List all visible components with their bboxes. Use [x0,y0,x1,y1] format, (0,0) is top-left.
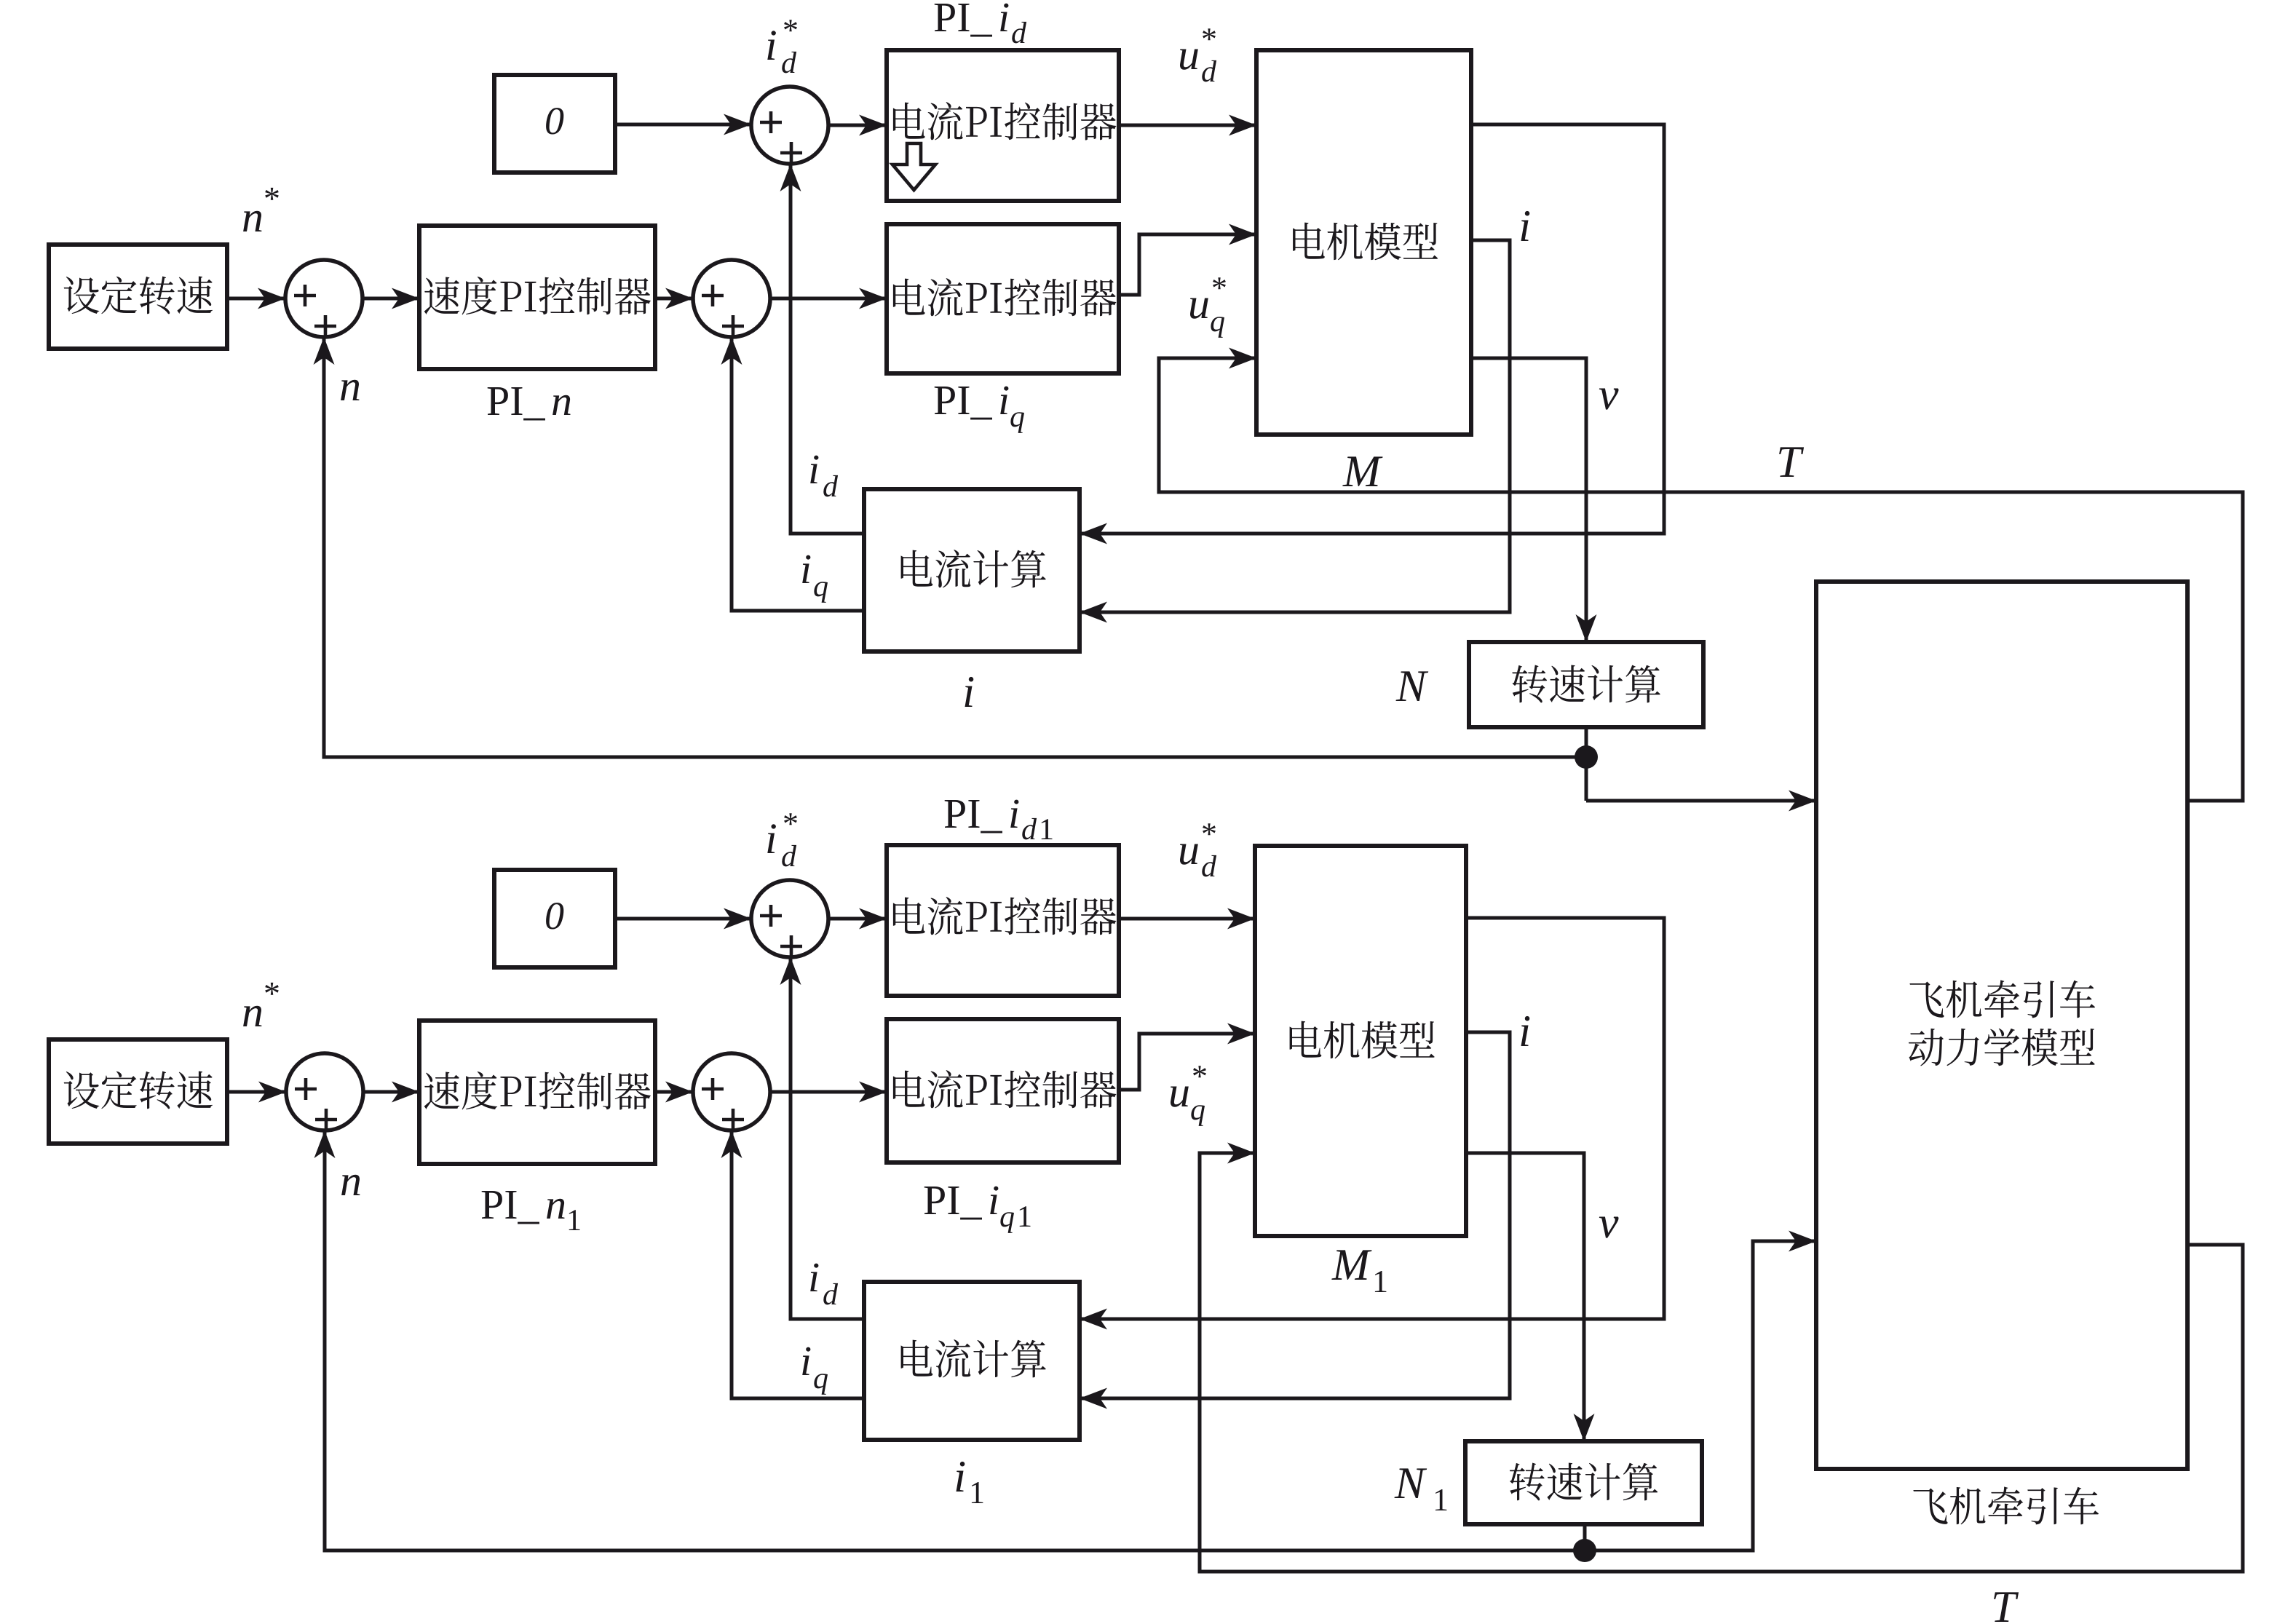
wire 速度PI控制器1 -> summing junction 2 [655,297,693,301]
wire junction4 -> 电流PI控制器 q2 [770,1090,887,1094]
wire 转速计算1 output down to junction dot [1585,727,1588,801]
label ud* (bottom) [1180,844,1198,865]
wire iq feedback -> junction 4 [732,1130,864,1398]
label n* (speed ref 1) [243,211,261,231]
wire N1 -> 飞机牵引车动力学模型 input [1585,1241,1816,1550]
wire junction d2 -> 电流PI控制器 d2 [828,917,887,921]
label PI_n [488,387,545,421]
wire u_q*: PI_iq2 -> motor model 2 (with jog) [1119,1034,1255,1090]
block: current calculation 2 (电流计算) [864,1282,1080,1440]
block: zero reference 1 (0) [494,75,615,173]
wire T feedback: big box -> motor model 1 [1159,358,2243,801]
block: current PI controller d1 (电流PI控制器) [887,50,1119,201]
block: current calculation 1 (电流计算) [864,489,1080,651]
wire 设定转速1 -> speed summing junction 1 [227,297,285,301]
label T (top torque feedback) [1779,447,1804,477]
block: speed calculation 1 (转速计算) [1469,642,1703,727]
block: speed calculation 2 (转速计算) [1465,1441,1702,1524]
block: zero reference 2 (0) [494,870,615,967]
label id* (bottom) [767,824,776,853]
wire iq feedback -> junction 2 [732,337,864,611]
label PI_i_q1 [924,1187,982,1220]
label v (motor1 speed output) [1599,389,1619,410]
wire u_d* : PI_id1 -> motor model 1 [1119,124,1256,127]
label v (motor2 speed output) [1599,1217,1619,1238]
label PI_i_q [935,387,992,420]
wire junction d1 -> 电流PI控制器 d1 [828,124,887,127]
wire T feedback: big box -> motor model 2 [1200,1153,2243,1572]
wire 速度PI控制器2 -> summing junction 4 [655,1090,693,1094]
label i (below 电流计算1) [965,677,974,707]
wire u_d*: PI_id2 -> motor model 2 [1119,917,1255,921]
block: motor model 2 (电机模型) [1255,846,1466,1236]
label ud* (top) [1180,49,1198,70]
hollow down arrow icon in PI_id block [892,143,935,190]
wire 设定转速2 -> summing junction 3 [227,1090,286,1094]
label i_d (top) [810,456,818,483]
wire junction1 -> 速度PI控制器1 [363,297,419,301]
summing junction 4 (q current error, bottom) [693,1053,770,1130]
block: current PI controller q1 (电流PI控制器) [887,224,1119,373]
wire junction3 -> 速度PI控制器2 [363,1090,419,1094]
label uq* (top) [1190,298,1208,319]
wire n feedback (top) -> junction 1 [324,337,1586,757]
label i_q (top) [802,555,810,583]
block: speed setpoint 2 (设定转速) [49,1039,227,1144]
label n (feedback into junction 1) [341,380,359,400]
label 飞机牵引车 (below big box) [1913,1486,2099,1524]
label M1 (motor 2) [1331,1250,1371,1280]
junction dot N1 (bottom) [1573,1539,1596,1562]
label N [1396,671,1429,701]
label T (bottom torque feedback) [1994,1592,2019,1622]
wire 0 box -> summing junction d1 [615,123,751,127]
label i (motor1 current output) [1521,211,1530,241]
label id* (top) [767,31,776,60]
label N1 [1395,1468,1427,1498]
wire N -> 飞机牵引车动力学模型 input [1586,799,1816,803]
junction dot N (top) [1575,745,1598,769]
wire id feedback -> junction d2 [791,957,864,1319]
wire v: motor2 output3 -> 转速计算2 [1466,1153,1584,1441]
wire i: motor2 output2 -> 电流计算2 input2 [1080,1032,1510,1398]
label uq* (bottom) [1171,1087,1189,1107]
label i1 (below 电流计算2) [957,1462,965,1492]
label M (motor 1) [1342,456,1382,486]
label i_d (bottom) [810,1264,818,1291]
label n* (speed ref 2) [243,1006,261,1026]
block: current PI controller d2 (电流PI控制器) [887,845,1119,996]
wire id feedback -> junction d1 [791,164,864,534]
wire junction2 -> 电流PI控制器 q1 [770,297,887,301]
label n (feedback into junction 3) [341,1175,360,1195]
label PI_i_d [935,4,992,37]
wire n feedback (bottom) -> junction 3 [325,1130,1585,1550]
block: speed PI controller 1 (速度PI控制器) [419,226,655,369]
summing junction d1 (id error, top) [751,87,828,164]
summing junction d2 (id error, bottom) [751,880,828,957]
summing junction 2 (q current error, top) [693,260,770,337]
block: current PI controller q2 (电流PI控制器) [887,1019,1119,1162]
block: motor model 1 (电机模型) [1256,50,1471,435]
block: speed setpoint 1 (设定转速) [49,245,227,349]
wire u_q* : PI_iq1 -> motor model 1 (with jog) [1119,234,1256,295]
wire v: motor1 output3 -> 转速计算1 [1471,358,1586,642]
wire motor1 output1 -> 电流计算1 input1 [1080,124,1664,534]
wire motor2 output1 -> 电流计算2 input1 [1080,918,1664,1319]
wire i: motor1 output2 -> 电流计算1 input2 [1080,240,1510,612]
label i (motor2 current output) [1521,1016,1530,1046]
wire 0 box2 -> summing junction d2 [615,917,751,921]
block: speed PI controller 2 (速度PI控制器) [419,1021,655,1164]
summing junction 1 (speed error, top) [285,260,363,337]
label PI_n1 [482,1191,539,1224]
label i_q (bottom) [802,1347,810,1375]
summing junction 3 (speed error, bottom) [286,1053,363,1130]
wire 转速计算2 output down to junction dot [1583,1524,1587,1550]
block: aircraft tractor dynamics model (飞机牵引车动力学模型) [1816,582,2187,1469]
label PI_i_d1 [945,800,1002,833]
